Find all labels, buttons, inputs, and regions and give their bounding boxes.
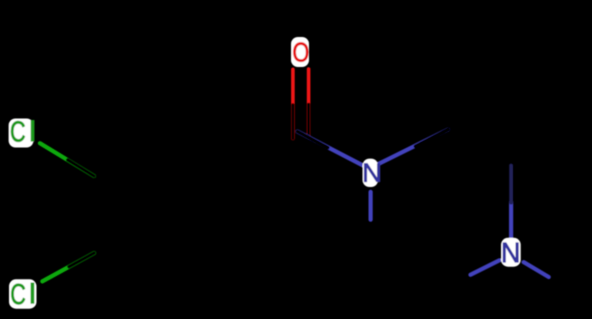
bond C3p-N2 (blue half, vertical) bbox=[509, 202, 513, 240]
bond Cl2-C4 (green half) bbox=[42, 253, 94, 281]
bond N2-C5 (blue half) bbox=[471, 260, 500, 275]
label N1 (glyph path) bbox=[364, 164, 379, 182]
label Cl1: letter C (glyph path) bbox=[11, 121, 25, 142]
bond N1-C6 (blue half) bbox=[369, 192, 373, 220]
double bond C7=O left line (red half) bbox=[291, 69, 295, 138]
label Cl1: letter l (bar) bbox=[31, 120, 35, 142]
label Cl2: letter l (bar) bbox=[31, 283, 35, 304]
label N2 (glyph path) bbox=[503, 243, 518, 262]
bond Cl1-C3 (green half) bbox=[40, 143, 94, 176]
bond C7-N1 (blue half) bbox=[298, 132, 365, 167]
label O (glyph path) bbox=[294, 43, 309, 62]
halo box Cl1 bbox=[9, 119, 34, 148]
bond N1-C2 (blue half) bbox=[377, 130, 448, 165]
halo box N2 bbox=[501, 238, 521, 267]
halo box O bbox=[291, 37, 309, 67]
double bond C7=O right line (red half) bbox=[307, 69, 311, 136]
halo box Cl2 bbox=[9, 279, 37, 308]
halo box N1 bbox=[363, 159, 379, 187]
label Cl2: letter C (glyph path) bbox=[11, 284, 25, 305]
bond N2-CH3 methyl (blue half) bbox=[524, 262, 549, 277]
